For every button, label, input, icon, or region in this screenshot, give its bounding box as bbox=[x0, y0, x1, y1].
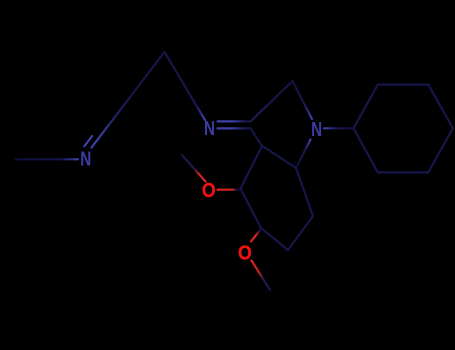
svg-text:O: O bbox=[238, 242, 252, 264]
ring cyclohexyl hexagon bbox=[354, 85, 453, 173]
ring central edge B-A bbox=[241, 146, 263, 189]
wire apex2-N3 bbox=[293, 81, 313, 119]
svg-text:N: N bbox=[311, 119, 322, 141]
ring central edge G-F2 bbox=[288, 216, 313, 250]
wire ringB-O1 bbox=[218, 189, 239, 191]
svg-text:O: O bbox=[202, 180, 216, 202]
wire N3-cyclohexyl bbox=[324, 127, 354, 129]
wire N2=C upper bbox=[218, 120, 252, 122]
ring central edge F-B bbox=[241, 189, 262, 229]
wire Cim-apex2 bbox=[251, 81, 293, 121]
ring central edge F2-F bbox=[261, 228, 288, 250]
wire apex1-N2 bbox=[165, 52, 206, 120]
svg-text:N: N bbox=[80, 149, 91, 171]
wire Cim-ringA bbox=[251, 129, 262, 146]
wire N3-ringTR bbox=[296, 140, 311, 169]
wire N1=C main bbox=[92, 52, 165, 148]
svg-text:N: N bbox=[204, 118, 215, 140]
ring central edge TR-G bbox=[296, 168, 313, 216]
wire O2-CH3 bbox=[252, 261, 271, 291]
ring central edge A-TR bbox=[263, 146, 297, 168]
wire CH3-N1 bbox=[16, 158, 78, 160]
wire N2=C lower bbox=[218, 127, 252, 129]
wire O1-CH3 bbox=[182, 155, 206, 182]
wire ringF-O2 bbox=[251, 230, 260, 242]
wire N1=C inner bbox=[84, 136, 92, 146]
